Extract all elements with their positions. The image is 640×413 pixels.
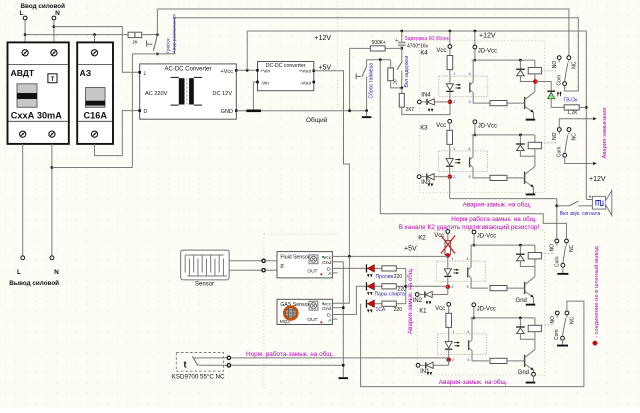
junction reset ground bbox=[365, 109, 368, 112]
svg-text:2К7: 2К7 bbox=[406, 107, 415, 113]
svg-text:4700*16v: 4700*16v bbox=[407, 43, 429, 49]
svg-text:Com: Com bbox=[556, 75, 562, 86]
svg-text:AC 220V: AC 220V bbox=[145, 91, 168, 97]
&#1050;1 JD-Vcc pin bbox=[472, 303, 476, 307]
node L power output terminal bbox=[21, 256, 25, 260]
svg-text:Сброс таймера: Сброс таймера bbox=[367, 63, 374, 99]
svg-text:СххА 30mА: СххА 30mА bbox=[11, 111, 62, 121]
svg-text:Вкл звук. сигнала: Вкл звук. сигнала bbox=[560, 211, 601, 217]
&#1050;4 opto LED bbox=[449, 70, 451, 84]
&#1050;1 relay coil bbox=[534, 318, 536, 325]
wire +5V down to sensor rail bbox=[314, 71, 350, 257]
junction thermostat ground bbox=[342, 364, 345, 367]
svg-text:В канале К2 удалить подтягиваю: В канале К2 удалить подтягивающий резист… bbox=[399, 223, 540, 231]
&#1050;4 mechanical link bbox=[542, 70, 557, 72]
resistor R3 2K7 bbox=[401, 88, 403, 94]
svg-text:Гребок: Гребок bbox=[166, 37, 172, 53]
svg-text:NC: NC bbox=[572, 133, 578, 141]
svg-text:2К: 2К bbox=[132, 40, 138, 45]
&#1050;1 JD-Vcc feed bbox=[473, 307, 475, 318]
ground bar sensors bbox=[339, 377, 349, 379]
junction AZ top feed bbox=[93, 33, 96, 36]
svg-text:Норм работа-замык. на общ.: Норм работа-замык. на общ. bbox=[451, 215, 537, 223]
svg-text:IN1: IN1 bbox=[420, 369, 430, 375]
&#1050;3 contact Com bbox=[563, 153, 567, 157]
svg-text:GND: GND bbox=[221, 109, 233, 115]
junction K4 JD-Vcc feed bbox=[474, 30, 477, 33]
wire AZ out to converter D pin bbox=[95, 111, 140, 156]
&#1050;1 base resistor bbox=[490, 358, 507, 363]
junction timer output bbox=[379, 58, 382, 61]
wire gas A stub bbox=[332, 318, 337, 320]
&#1050;3 contact NC bbox=[567, 128, 571, 132]
&#1050;1 opto LED bbox=[448, 327, 450, 341]
svg-text:AC-DC Converter: AC-DC Converter bbox=[164, 67, 211, 73]
node L power input terminal bbox=[23, 16, 27, 20]
sensor terminal 1 bbox=[262, 259, 265, 262]
svg-text:-Vin: -Vin bbox=[261, 80, 270, 86]
svg-text:Fluid Sensor: Fluid Sensor bbox=[280, 255, 309, 261]
svg-text:Com: Com bbox=[554, 329, 560, 340]
&#1050;2 input terminal IN2 bbox=[415, 293, 419, 297]
&#1050;3 Vcc resistor bbox=[449, 123, 451, 130]
svg-text:NC: NC bbox=[570, 316, 576, 324]
&#1050;2 mechanical link bbox=[542, 253, 555, 255]
svg-text:IN: IN bbox=[280, 264, 285, 269]
svg-text:220: 220 bbox=[394, 307, 403, 313]
wire gas D to LED2 bbox=[332, 286, 366, 314]
junction gas gnd bbox=[342, 306, 345, 309]
junction cap feed bbox=[400, 30, 403, 33]
&#1050;4 contact NO bbox=[557, 56, 561, 60]
svg-text:+Vcc: +Vcc bbox=[220, 69, 233, 75]
svg-text:+12V: +12V bbox=[589, 176, 606, 183]
resistor R-D2 220 bbox=[375, 285, 382, 287]
resistor R-D1 220 bbox=[375, 267, 382, 269]
svg-text:20: 20 bbox=[393, 79, 398, 85]
LED D3 1CA red bbox=[366, 300, 368, 308]
wire test branch down bbox=[131, 54, 133, 168]
gas sensor element bbox=[284, 307, 297, 320]
svg-text:Вывод силовой: Вывод силовой bbox=[9, 279, 59, 287]
wire fluid Gnd stub bbox=[332, 261, 343, 263]
switch handle AZ bbox=[86, 88, 106, 108]
wire N down to AVDT pole2 bbox=[53, 20, 55, 49]
wire fluid A stub bbox=[332, 272, 337, 274]
svg-text:JD-Vcc: JD-Vcc bbox=[478, 124, 497, 130]
svg-text:Gnd: Gnd bbox=[518, 370, 529, 376]
svg-text:1,2К: 1,2К bbox=[567, 110, 577, 116]
svg-text:NO: NO bbox=[552, 132, 558, 140]
&#1050;3 Vcc pin bbox=[448, 119, 452, 123]
wire terminals to fluid module bbox=[265, 260, 277, 262]
K3 node to alarm common wire bbox=[450, 177, 557, 239]
&#1050;2 input diode bbox=[419, 294, 424, 296]
thermostat KSD9700 bbox=[176, 353, 223, 372]
wire +12V riser bbox=[246, 31, 248, 70]
&#1050;4 contact blade bbox=[565, 63, 568, 82]
module U2 DC-DC converter bbox=[258, 62, 314, 91]
svg-text:Вкл задержки: Вкл задержки bbox=[404, 56, 410, 88]
&#1050;1 flyback diode bbox=[519, 317, 522, 320]
&#1050;1 contact Com bbox=[561, 336, 565, 340]
svg-text:L: L bbox=[20, 10, 24, 17]
module gas sensor MQ3 bbox=[277, 299, 332, 324]
&#1050;2 contact NO bbox=[555, 239, 559, 243]
K4 coil bottom red node bbox=[533, 79, 537, 83]
LED D2 pary spirta red bbox=[366, 282, 368, 290]
switch timer reset bbox=[366, 60, 368, 67]
svg-text:OUT: OUT bbox=[307, 269, 317, 275]
&#1050;2 JD-Vcc pin bbox=[472, 230, 476, 234]
&#1050;4 contact NC bbox=[567, 56, 571, 60]
dotted boundary relay module 1 bbox=[419, 40, 544, 192]
wire LED bus to K2 node bbox=[406, 285, 448, 287]
svg-text:Vcc: Vcc bbox=[436, 48, 446, 54]
&#1050;4 input node red dot bbox=[448, 100, 452, 104]
svg-text:Авария-замык. на общ.: Авария-замык. на общ. bbox=[407, 267, 414, 334]
svg-text:L: L bbox=[144, 71, 147, 77]
&#1050;1 contact blade bbox=[563, 318, 566, 336]
&#1050;3 transistor Q bbox=[534, 156, 536, 166]
svg-text:1СА: 1СА bbox=[376, 307, 386, 313]
&#1050;4 JD-Vcc feed bbox=[474, 49, 476, 60]
svg-text:АВДТ: АВДТ bbox=[11, 68, 35, 78]
svg-text:+Vin: +Vin bbox=[261, 69, 271, 75]
svg-text:JD-Vcc: JD-Vcc bbox=[478, 49, 497, 55]
K2 +5V node red dot bbox=[446, 253, 450, 257]
&#1050;1 mechanical link bbox=[542, 324, 555, 326]
&#1050;2 relay coil bbox=[534, 245, 536, 252]
&#1050;2 input node red dot bbox=[446, 285, 450, 289]
ground symbol timer bbox=[366, 111, 368, 117]
wire gas Gnd stub bbox=[332, 307, 343, 309]
&#1050;1 contact NO bbox=[555, 311, 559, 315]
wire fluid Vcc stub bbox=[332, 255, 345, 257]
resistor R1 500K bbox=[350, 47, 371, 49]
node N power input terminal bbox=[52, 16, 56, 20]
svg-text:IN4: IN4 bbox=[421, 92, 431, 98]
junction +12V tap bbox=[246, 69, 249, 72]
junction LED 1.2K tap bbox=[585, 106, 588, 109]
test button T bbox=[48, 74, 57, 83]
svg-text:Авария-замык. на общ.: Авария-замык. на общ. bbox=[463, 200, 532, 208]
svg-text:DC 12V: DC 12V bbox=[212, 91, 232, 97]
svg-text:Норм. работа-замык. на общ.: Норм. работа-замык. на общ. bbox=[246, 350, 334, 358]
&#1050;2 opto transistor bbox=[467, 267, 469, 277]
wire 500K to ground rail bbox=[349, 48, 351, 110]
&#1050;4 Vcc pin bbox=[448, 45, 452, 49]
&#1050;4 Vcc resistor bbox=[449, 48, 451, 55]
junction speaker tap bbox=[555, 204, 558, 207]
junction N bbox=[53, 25, 56, 28]
&#1050;3 contact blade bbox=[565, 135, 568, 154]
breaker AZ C16A bbox=[77, 42, 113, 143]
svg-text:220: 220 bbox=[394, 274, 403, 280]
wire N to converter L pin bbox=[54, 27, 140, 73]
&#1050;2 contact Com bbox=[561, 263, 565, 267]
&#1050;2 emitter ground bbox=[533, 298, 535, 304]
svg-text:-Vout: -Vout bbox=[300, 80, 312, 86]
&#1050;1 transistor Q bbox=[534, 339, 536, 349]
&#1050;1 input terminal IN1 bbox=[416, 363, 420, 367]
svg-text:Gnd: Gnd bbox=[322, 260, 331, 266]
sensor interdigitated electrode bbox=[181, 250, 230, 280]
&#1050;4 input terminal IN4 bbox=[417, 100, 421, 104]
wire thermostat to ground bbox=[231, 364, 343, 366]
wire ground bus sensors bbox=[342, 262, 344, 377]
&#1050;2 transistor Q bbox=[534, 267, 536, 277]
wire switch bottom bus bbox=[132, 53, 174, 55]
module U1 AC-DC converter bbox=[140, 64, 237, 119]
K1 Com ground bar bbox=[562, 340, 564, 345]
capacitor C1 4700uF bbox=[401, 31, 403, 42]
junction timer node B bbox=[400, 87, 403, 90]
dotted boundary sensor module bbox=[264, 234, 342, 390]
svg-text:С16А: С16А bbox=[84, 111, 108, 121]
svg-text:500К+: 500К+ bbox=[372, 40, 386, 46]
ground bar -Vin bbox=[246, 110, 261, 113]
junction switch bottom bbox=[156, 53, 159, 56]
&#1050;4 base resistor bbox=[490, 101, 507, 106]
svg-text:IN2: IN2 bbox=[413, 298, 423, 304]
svg-text:NC: NC bbox=[572, 61, 578, 69]
rail2 to K4 Com bbox=[175, 18, 579, 91]
sensor terminal 2 bbox=[262, 269, 265, 272]
wire L bus to fuse bbox=[25, 34, 128, 36]
&#1050;3 mechanical link bbox=[542, 142, 557, 144]
rail1 to K4 NC bbox=[157, 9, 569, 56]
&#1050;3 input terminal IN3 bbox=[417, 175, 421, 179]
&#1050;1 input diode bbox=[420, 364, 425, 366]
speaker SP1 bbox=[592, 196, 605, 209]
junction L bbox=[24, 33, 27, 36]
wire riser to rail1 bbox=[156, 9, 158, 35]
resistor R-D3 220 bbox=[375, 303, 382, 305]
&#1050;1 input node red dot bbox=[447, 358, 451, 362]
wire timer node line bbox=[367, 59, 391, 61]
&#1050;2 opto LED bbox=[447, 255, 449, 269]
junction N out branch bbox=[51, 166, 54, 169]
svg-text:АЗ: АЗ bbox=[80, 68, 92, 78]
&#1050;1 emitter ground bbox=[533, 370, 535, 372]
junction K4 Vcc feed bbox=[449, 30, 452, 33]
&#1050;4 contact Com bbox=[563, 82, 567, 86]
&#1050;3 input diode bbox=[421, 176, 426, 178]
wire branch down to AZ input bbox=[94, 35, 96, 50]
svg-text:Vcc: Vcc bbox=[436, 123, 446, 129]
node N power output terminal bbox=[50, 256, 54, 260]
svg-text:Vcc: Vcc bbox=[323, 255, 332, 261]
transformer T1 bbox=[179, 78, 185, 104]
svg-text:К3: К3 bbox=[420, 124, 428, 131]
&#1050;3 opto transistor bbox=[469, 157, 471, 167]
wire timer output to K2 NC bbox=[380, 60, 566, 239]
svg-text:Авар размыкания: Авар размыкания bbox=[171, 14, 177, 54]
svg-text:Gnd: Gnd bbox=[322, 306, 331, 312]
wire -Vin to ground rail bbox=[253, 82, 257, 110]
switch actuator T bbox=[146, 40, 148, 47]
resistor R2 20 bbox=[390, 60, 392, 68]
svg-text:Авария-замык. на общ.: Авария-замык. на общ. bbox=[439, 378, 508, 386]
svg-text:DC-DC converter: DC-DC converter bbox=[266, 63, 306, 69]
&#1050;3 opto box bbox=[439, 151, 488, 172]
junction timer node A bbox=[400, 47, 403, 50]
wire fluid D to LED1 bbox=[332, 267, 366, 269]
resistor 1.2K bbox=[564, 105, 579, 110]
dotted boundary relay module 2 bbox=[417, 230, 544, 375]
switch handle AVDT bbox=[17, 84, 37, 108]
&#1050;4 opto box bbox=[439, 76, 488, 97]
wire K4 Vcc riser bbox=[449, 31, 451, 45]
&#1050;2 opto box bbox=[437, 261, 486, 282]
K4 Com wire to rail2 bbox=[565, 86, 579, 91]
&#1050;1 Vcc resistor bbox=[448, 306, 450, 313]
&#1050;4 emitter ground bbox=[533, 113, 535, 119]
&#1050;3 emitter ground bbox=[533, 187, 535, 193]
wire AVDT L out down bbox=[22, 144, 24, 256]
ground rail Obschiy bbox=[236, 110, 366, 112]
svg-text:К2: К2 bbox=[418, 235, 426, 242]
&#1050;1 opto transistor bbox=[468, 340, 470, 350]
svg-text:JD-Vcc: JD-Vcc bbox=[477, 234, 496, 240]
svg-text:- соединение не в штатный выво: - соединение не в штатный вывод bbox=[593, 246, 600, 338]
&#1050;3 flyback diode bbox=[519, 134, 522, 137]
svg-text:Общий: Общий bbox=[306, 116, 328, 124]
svg-text:NC: NC bbox=[569, 244, 575, 252]
LED green GV-Ok bbox=[535, 82, 551, 92]
wire fuse to switch node bbox=[142, 34, 158, 36]
thermostat terminal 2 bbox=[227, 364, 230, 367]
wire thermostat to K1 node bbox=[231, 357, 449, 359]
K2 pullup resistor red cross bbox=[441, 236, 455, 254]
svg-text:Задержка 60-90сек: Задержка 60-90сек bbox=[405, 36, 450, 42]
svg-text:+5V: +5V bbox=[404, 246, 417, 253]
wire sensor to terminals bbox=[229, 260, 262, 262]
&#1050;3 opto LED bbox=[449, 144, 451, 158]
svg-text:Авария-замыкание: Авария-замыкание bbox=[602, 107, 608, 158]
&#1050;2 Vcc pin bbox=[446, 230, 450, 234]
svg-text:NO: NO bbox=[552, 61, 558, 69]
svg-text:Т: Т bbox=[51, 76, 55, 83]
breaker AVDT CxxA 30mA bbox=[8, 42, 69, 143]
&#1050;3 relay coil bbox=[534, 135, 536, 142]
svg-text:KSD9700 55°C NC: KSD9700 55°C NC bbox=[172, 373, 225, 380]
&#1050;2 base resistor bbox=[490, 286, 507, 291]
junction switch top bbox=[156, 33, 159, 36]
svg-text:L: L bbox=[17, 269, 21, 276]
wire LED bus bbox=[405, 268, 407, 303]
&#1050;1 contact NC bbox=[565, 311, 569, 315]
wire gas Vcc feed bbox=[332, 256, 349, 303]
svg-text:N: N bbox=[54, 269, 59, 276]
svg-text:D: D bbox=[144, 109, 148, 115]
K3 Com arrow out bbox=[565, 157, 594, 163]
&#1050;3 JD-Vcc pin bbox=[473, 120, 477, 124]
&#1050;2 contact NC bbox=[565, 239, 569, 243]
&#1050;1 Vcc pin bbox=[447, 302, 451, 306]
&#1050;2 JD-Vcc feed bbox=[473, 234, 475, 245]
svg-text:Com: Com bbox=[555, 256, 561, 267]
&#1050;2 Vcc resistor bbox=[447, 233, 449, 240]
svg-text:Vcc: Vcc bbox=[435, 306, 445, 312]
wire N branch to test loop bbox=[52, 167, 132, 169]
svg-text:+Vout: +Vout bbox=[299, 69, 312, 75]
svg-text:+12V: +12V bbox=[479, 33, 496, 40]
wire rail into speaker bbox=[586, 199, 592, 201]
&#1050;2 flyback diode bbox=[519, 244, 522, 247]
K1 NC to common loop bbox=[361, 301, 584, 387]
&#1050;3 input node red dot bbox=[448, 175, 452, 179]
svg-text:Ввод силовой: Ввод силовой bbox=[21, 2, 66, 10]
K3 NO arrow out bbox=[559, 119, 593, 128]
&#1050;4 JD-Vcc pin bbox=[473, 45, 477, 49]
thermostat terminal 1 bbox=[227, 356, 230, 359]
wire AVDT N out down bbox=[51, 144, 53, 256]
&#1050;2 contact blade bbox=[563, 246, 566, 263]
svg-text:Пролив: Пролив bbox=[376, 274, 394, 280]
&#1050;3 base resistor bbox=[490, 175, 507, 180]
svg-text:220: 220 bbox=[398, 287, 407, 293]
svg-text:NO: NO bbox=[550, 316, 556, 324]
&#1050;4 transistor Q bbox=[534, 82, 536, 92]
legend red dot bbox=[593, 341, 597, 345]
module fluid sensor bbox=[277, 252, 332, 278]
wire riser to rail2 bbox=[174, 18, 176, 54]
svg-text:+12V: +12V bbox=[315, 35, 332, 42]
wire +Vcc to DC-DC +Vin bbox=[236, 69, 257, 71]
&#1050;4 flyback diode bbox=[519, 59, 522, 62]
wire 2K7 to K4 input bbox=[402, 102, 450, 115]
svg-text:NO: NO bbox=[550, 244, 556, 252]
wire K4 JD-Vcc riser bbox=[474, 31, 476, 45]
svg-text:Com: Com bbox=[556, 147, 562, 158]
K2 Com ground bar bbox=[562, 267, 564, 273]
svg-text:JD-Vcc: JD-Vcc bbox=[477, 307, 496, 313]
switch delay enable bbox=[401, 48, 403, 62]
switch emergency comb blade bbox=[153, 35, 157, 51]
&#1050;4 opto transistor bbox=[469, 82, 471, 92]
svg-text:OUT: OUT bbox=[307, 317, 317, 323]
svg-text:Gnd: Gnd bbox=[516, 298, 527, 304]
switch sound enable bbox=[557, 205, 569, 207]
junction LED bus bbox=[404, 285, 407, 288]
svg-text:N: N bbox=[55, 10, 60, 17]
wire L down to AVDT pole1 bbox=[24, 20, 26, 49]
svg-text:IN3: IN3 bbox=[421, 180, 431, 186]
svg-text:К4: К4 bbox=[420, 50, 428, 57]
dotted boundary power section bbox=[337, 2, 339, 111]
&#1050;3 JD-Vcc feed bbox=[474, 124, 476, 135]
junction 500K ground bbox=[348, 109, 351, 112]
&#1050;4 input diode bbox=[421, 101, 426, 103]
fuse 2K bbox=[128, 32, 142, 37]
rail +12V bbox=[247, 31, 586, 200]
svg-text:К1: К1 bbox=[419, 307, 427, 314]
junction gas Vcc tap bbox=[348, 255, 351, 258]
&#1050;4 relay coil bbox=[534, 60, 536, 67]
&#1050;1 opto box bbox=[438, 334, 487, 355]
svg-text:+: + bbox=[395, 38, 398, 44]
svg-text:ГВ-Ок: ГВ-Ок bbox=[564, 97, 579, 103]
rail +5V sensors bbox=[344, 255, 448, 257]
&#1050;3 contact NO bbox=[557, 128, 561, 132]
svg-text:Sensor: Sensor bbox=[195, 282, 214, 288]
LED D1 proliv red bbox=[366, 264, 368, 272]
